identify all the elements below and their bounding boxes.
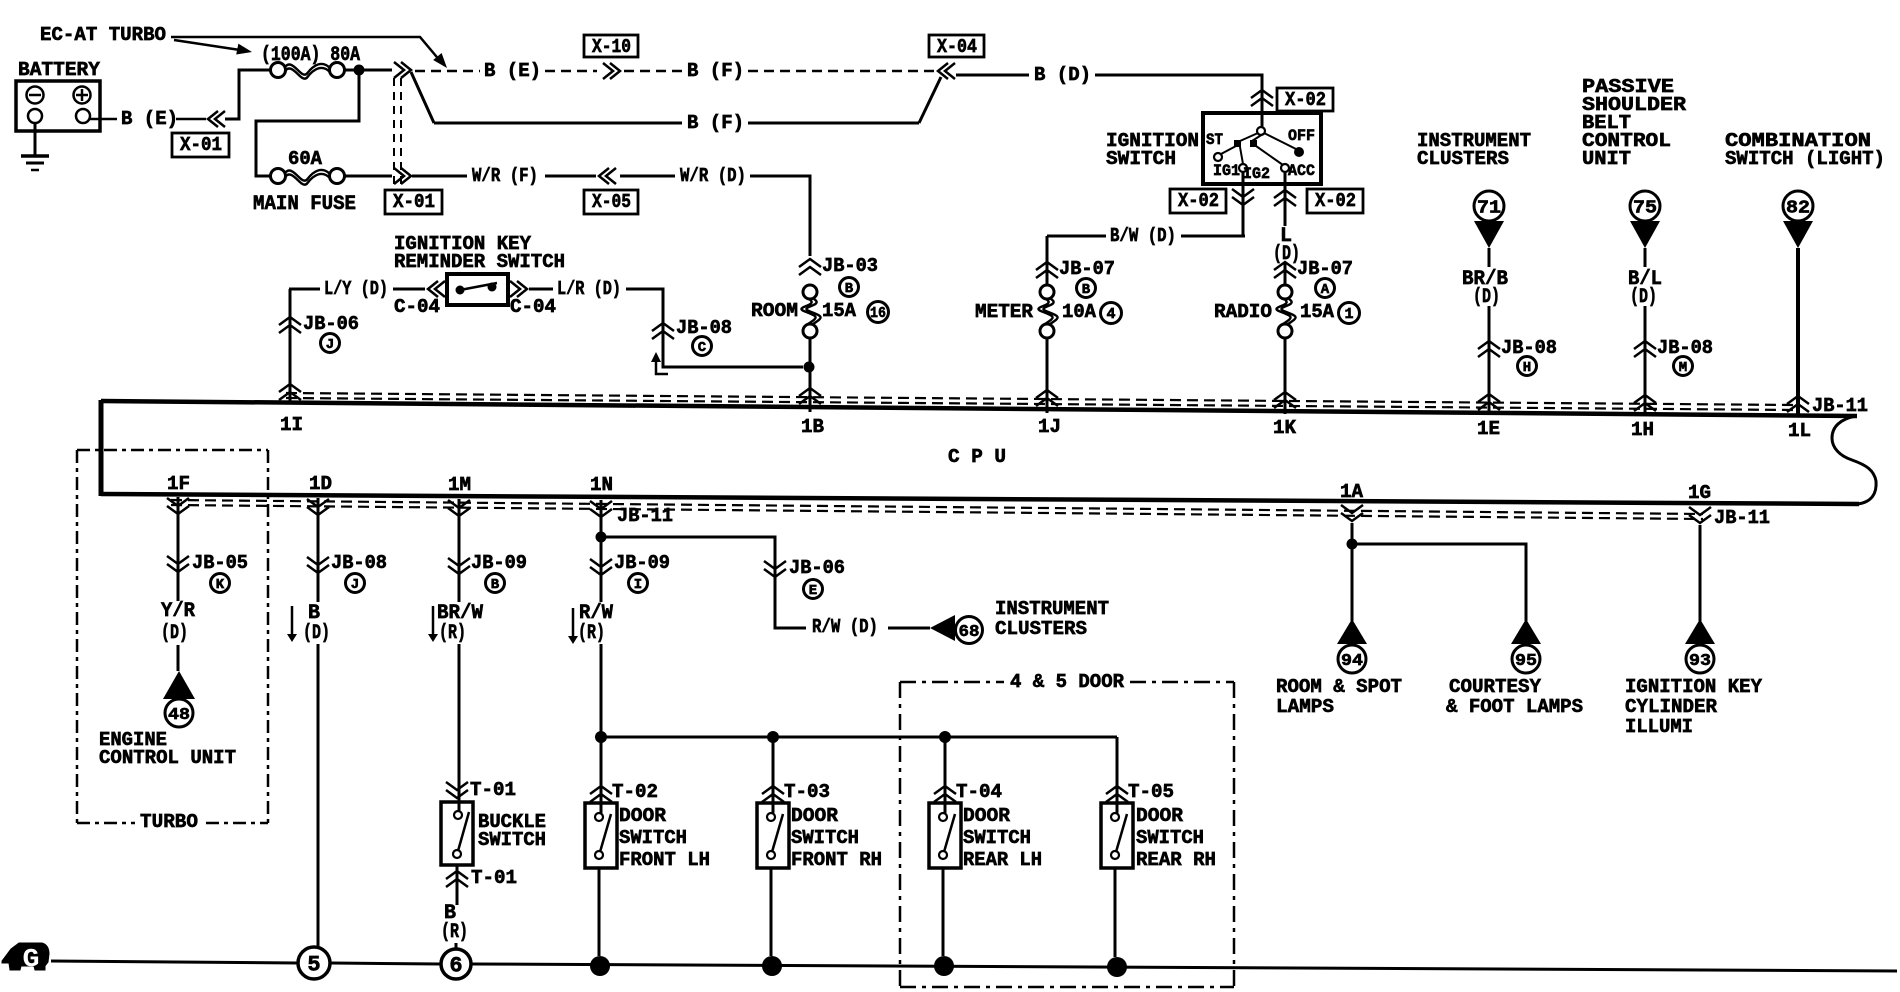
CPU bus right curl xyxy=(1832,416,1876,504)
svg-text:DOOR: DOOR xyxy=(791,805,839,827)
svg-text:JB-11: JB-11 xyxy=(1714,507,1770,529)
svg-text:A: A xyxy=(1321,282,1330,298)
svg-text:B/W (D): B/W (D) xyxy=(1110,225,1176,247)
connector ref circle 4 xyxy=(1101,303,1122,324)
wire branch to instrument clusters xyxy=(601,537,806,628)
svg-text:68: 68 xyxy=(959,623,980,642)
svg-text:ROOM & SPOT: ROOM & SPOT xyxy=(1276,676,1402,698)
current arrow 1D xyxy=(291,606,294,638)
wire 1G drop xyxy=(1699,525,1702,621)
svg-text:T-04: T-04 xyxy=(956,781,1002,803)
svg-text:ST: ST xyxy=(1206,131,1223,149)
svg-text:X-01: X-01 xyxy=(393,191,435,213)
connector X-10 label box xyxy=(584,35,638,57)
svg-text:ILLUMI: ILLUMI xyxy=(1625,716,1693,738)
junction block JB-08 J lower xyxy=(307,565,329,573)
svg-text:TURBO: TURBO xyxy=(140,811,198,833)
svg-text:X-02: X-02 xyxy=(1285,89,1326,111)
connector chevron C-04 right xyxy=(517,281,527,297)
svg-text:B (D): B (D) xyxy=(1034,64,1091,86)
connector chevron T-01 upper xyxy=(446,790,468,798)
svg-text:B: B xyxy=(491,577,500,593)
ground junction T-03 xyxy=(762,956,782,976)
junction block JB-09 B xyxy=(448,566,470,574)
node junction T-03 xyxy=(767,731,779,743)
wire 1N drop R/W (R) xyxy=(600,500,603,602)
fuse 60A xyxy=(271,169,286,184)
svg-text:(R): (R) xyxy=(441,921,468,944)
connector X-04 label box xyxy=(929,35,984,57)
svg-text:1B: 1B xyxy=(801,416,824,438)
wire T-04 to ground xyxy=(942,868,945,956)
svg-text:X-05: X-05 xyxy=(592,191,631,213)
svg-text:1: 1 xyxy=(1344,306,1353,323)
svg-text:SWITCH: SWITCH xyxy=(791,827,859,849)
arrow from EC-AT TURBO to main fuse xyxy=(174,40,240,50)
connector ref circle 95 courtesy and foot lamps xyxy=(1511,619,1541,644)
door switch T-03 xyxy=(757,803,789,868)
svg-text:CLUSTERS: CLUSTERS xyxy=(1417,148,1509,170)
svg-text:L/Y (D): L/Y (D) xyxy=(324,278,388,300)
wire xyxy=(345,175,392,178)
svg-text:48: 48 xyxy=(168,706,190,725)
svg-text:INSTRUMENT: INSTRUMENT xyxy=(995,598,1109,620)
node junction T-04 xyxy=(939,731,951,743)
connector X-02 label box right xyxy=(1307,189,1363,213)
svg-text:DOOR: DOOR xyxy=(619,805,667,827)
wire branch to courtesy lamps xyxy=(1352,544,1526,621)
connector ref circle 93 ignition key cylinder illumi xyxy=(1685,619,1715,644)
connector X-05 label box xyxy=(584,190,638,214)
svg-text:SWITCH (LIGHT): SWITCH (LIGHT) xyxy=(1725,148,1885,170)
svg-text:T-01: T-01 xyxy=(470,779,516,801)
CPU bus lower solid wire xyxy=(101,494,1859,504)
wire B (F) dashed to X-04 xyxy=(624,70,683,73)
wire ACC drop L (D) xyxy=(1284,172,1287,226)
wire xyxy=(225,70,270,119)
connector chevron X-02 ACC xyxy=(1274,190,1296,198)
svg-text:ACC: ACC xyxy=(1288,162,1315,180)
CPU bus left link xyxy=(99,400,104,496)
svg-text:EC-AT TURBO: EC-AT TURBO xyxy=(40,24,166,46)
svg-text:W/R (F): W/R (F) xyxy=(472,165,538,187)
junction block JB-06 J xyxy=(279,317,301,325)
svg-text:G: G xyxy=(23,944,40,974)
junction block JB-07 radio xyxy=(1274,262,1296,270)
svg-text:SWITCH: SWITCH xyxy=(1136,827,1204,849)
svg-text:K: K xyxy=(216,577,225,593)
svg-text:IGNITION KEY: IGNITION KEY xyxy=(1625,676,1763,698)
wire B (D) from X-04 to ignition switch xyxy=(956,74,1029,77)
svg-text:1F: 1F xyxy=(167,473,190,495)
wire to 60A fuse xyxy=(256,73,359,176)
svg-text:1E: 1E xyxy=(1477,418,1500,440)
svg-text:J: J xyxy=(326,337,334,353)
svg-text:15A: 15A xyxy=(1300,301,1335,323)
connector ref circle 71 instrument clusters xyxy=(1474,191,1504,221)
svg-text:X-02: X-02 xyxy=(1178,190,1219,212)
svg-text:BATTERY: BATTERY xyxy=(18,59,101,81)
door switch T-02 xyxy=(585,803,617,868)
node junction after 80A fuse xyxy=(354,65,365,76)
connector ref circle 94 room and spot lamps xyxy=(1337,619,1367,644)
svg-text:CLUSTERS: CLUSTERS xyxy=(995,618,1087,640)
wire T-02 to ground xyxy=(598,868,601,956)
svg-text:1I: 1I xyxy=(280,414,303,436)
connector ref circle 1 xyxy=(1339,303,1360,324)
connector chevron C-04 left xyxy=(428,281,438,297)
svg-text:C: C xyxy=(698,340,707,356)
CPU bus upper dashed pair xyxy=(286,393,1795,405)
wire B/L (D) to node 1H xyxy=(1644,248,1647,267)
svg-text:L/R (D): L/R (D) xyxy=(557,278,621,300)
junction block JB-08 C xyxy=(652,323,674,331)
svg-text:B (F): B (F) xyxy=(687,60,744,82)
svg-text:4: 4 xyxy=(1106,306,1115,323)
junction block JB-08 M xyxy=(1634,341,1656,349)
svg-text:Y/R: Y/R xyxy=(161,600,195,623)
ground symbol G xyxy=(2,943,49,970)
svg-text:REAR RH: REAR RH xyxy=(1136,849,1216,871)
svg-text:JB-09: JB-09 xyxy=(614,552,670,574)
connector chevron T-01 lower xyxy=(446,871,468,879)
wire 1I drop xyxy=(289,289,292,401)
connector chevron X-05 xyxy=(599,168,609,184)
svg-text:4 & 5 DOOR: 4 & 5 DOOR xyxy=(1010,671,1125,693)
svg-text:OFF: OFF xyxy=(1288,127,1315,145)
svg-text:1L: 1L xyxy=(1788,420,1811,442)
wire B (E) battery to main fuse xyxy=(90,118,117,121)
wire 1A drop xyxy=(1351,523,1354,621)
ground connector circle 5 xyxy=(298,947,330,979)
current arrow 1M xyxy=(432,606,435,638)
wire meter fuse to CPU node 1J xyxy=(1046,338,1049,413)
node junction 1A branch xyxy=(1347,539,1358,550)
reminder switch body xyxy=(447,274,508,305)
svg-text:COURTESY: COURTESY xyxy=(1449,676,1542,698)
svg-text:B (E): B (E) xyxy=(121,108,178,130)
svg-text:(D): (D) xyxy=(161,622,188,645)
svg-text:JB-05: JB-05 xyxy=(192,552,248,574)
svg-text:(R): (R) xyxy=(578,622,605,645)
svg-text:JB-09: JB-09 xyxy=(471,552,527,574)
wire below buckle switch xyxy=(456,865,459,905)
svg-text:1M: 1M xyxy=(448,474,471,496)
svg-text:FRONT LH: FRONT LH xyxy=(619,849,710,871)
ground junction T-02 xyxy=(590,956,610,976)
svg-text:1H: 1H xyxy=(1631,419,1654,441)
svg-text:(D): (D) xyxy=(303,622,330,645)
svg-text:JB-07: JB-07 xyxy=(1297,258,1353,280)
wire BR/B (D) to node 1E xyxy=(1488,248,1491,267)
connector X-01 label box 2 xyxy=(385,190,442,214)
svg-text:X-04: X-04 xyxy=(937,36,977,58)
fuse RADIO 15A xyxy=(1278,285,1292,299)
svg-text:IG1: IG1 xyxy=(1213,162,1240,180)
wire xyxy=(345,69,392,72)
svg-text:METER: METER xyxy=(975,301,1034,323)
door switch T-04 xyxy=(929,803,961,868)
svg-text:1A: 1A xyxy=(1340,481,1364,503)
svg-text:93: 93 xyxy=(1689,652,1711,671)
connector ref circle 75 passive belt unit xyxy=(1630,191,1660,221)
svg-text:C-04: C-04 xyxy=(394,296,440,318)
4 & 5 door dash-dot box xyxy=(900,681,1004,684)
connector chevron X-01 output 2 xyxy=(401,168,411,184)
CPU bus lower dashed pair xyxy=(171,500,1703,514)
wire W/R (D) to room fuse xyxy=(620,175,675,178)
svg-text:DOOR: DOOR xyxy=(1136,805,1184,827)
wire L/R (D) xyxy=(529,288,553,291)
node junction room/reminder xyxy=(804,362,815,373)
current arrow 1N xyxy=(572,608,575,640)
svg-text:MAIN FUSE: MAIN FUSE xyxy=(253,193,356,216)
svg-text:1K: 1K xyxy=(1273,417,1297,439)
svg-text:B (F): B (F) xyxy=(687,112,744,134)
ground junction T-05 xyxy=(1107,957,1127,977)
svg-text:RADIO: RADIO xyxy=(1214,301,1272,323)
connector ref circle 48 engine control unit xyxy=(163,671,195,699)
svg-text:1G: 1G xyxy=(1688,482,1711,504)
svg-text:X-01: X-01 xyxy=(180,134,222,156)
svg-text:FRONT RH: FRONT RH xyxy=(791,849,882,871)
arrow symbol at reminder wire corner xyxy=(656,362,668,374)
svg-text:B (E): B (E) xyxy=(484,60,541,82)
connector X-02 label box left xyxy=(1170,189,1226,213)
svg-text:X-10: X-10 xyxy=(592,36,631,58)
ground junction T-04 xyxy=(934,956,954,976)
svg-text:(D): (D) xyxy=(1630,286,1657,309)
arrow from EC-AT TURBO to B(E) dashed wire xyxy=(171,37,441,62)
svg-text:(D): (D) xyxy=(1473,286,1500,309)
wire 1D drop B (D) to ground 5 xyxy=(317,498,320,602)
svg-text:LAMPS: LAMPS xyxy=(1276,696,1334,718)
svg-text:C-04: C-04 xyxy=(510,296,556,318)
door switch T-05 xyxy=(1101,803,1133,868)
svg-text:W/R (D): W/R (D) xyxy=(680,165,746,187)
svg-text:M: M xyxy=(1679,360,1687,376)
engine control unit TURBO dash-dot box xyxy=(77,449,268,452)
svg-text:H: H xyxy=(1523,360,1531,376)
junction block JB-07 meter xyxy=(1046,236,1049,285)
ground connector circle 6 xyxy=(441,949,471,979)
wire B (F) solid lower branch xyxy=(411,72,434,123)
svg-text:1D: 1D xyxy=(309,473,332,495)
svg-text:J: J xyxy=(351,577,359,593)
svg-text:REMINDER SWITCH: REMINDER SWITCH xyxy=(394,251,565,273)
svg-text:60A: 60A xyxy=(288,148,323,170)
wire W/R (F) xyxy=(412,175,467,178)
connector X-02 label box top xyxy=(1277,88,1333,111)
svg-text:15A: 15A xyxy=(822,300,857,322)
junction block JB-05 K xyxy=(167,564,189,572)
svg-text:1J: 1J xyxy=(1038,416,1061,438)
wire T-03 to ground xyxy=(770,868,773,956)
svg-text:T-02: T-02 xyxy=(612,781,658,803)
svg-text:C P U: C P U xyxy=(948,446,1006,468)
connector ref circle 82 combination switch xyxy=(1783,191,1813,221)
svg-text:CONTROL UNIT: CONTROL UNIT xyxy=(99,747,236,769)
svg-text:REAR LH: REAR LH xyxy=(963,849,1042,871)
svg-text:JB-03: JB-03 xyxy=(822,255,878,277)
connector X-01 label box xyxy=(172,133,229,157)
svg-text:UNIT: UNIT xyxy=(1582,148,1631,170)
svg-text:R/W (D): R/W (D) xyxy=(812,616,878,638)
svg-text:10A: 10A xyxy=(1062,301,1097,323)
svg-text:75: 75 xyxy=(1633,198,1657,218)
door switch bus wire xyxy=(601,736,1117,739)
wire radio fuse to CPU node 1K xyxy=(1284,338,1287,414)
connector boundary dashed lines X-01 xyxy=(393,78,395,186)
connector ref circle 68 instrument clusters xyxy=(930,615,955,641)
wire 1F drop Y/R (D) xyxy=(177,497,180,601)
fuse METER 10A xyxy=(1040,285,1054,299)
wire T-04 drop xyxy=(944,737,947,813)
junction block JB-06 E xyxy=(764,569,786,577)
svg-text:& FOOT LAMPS: & FOOT LAMPS xyxy=(1446,696,1583,718)
CPU bus upper solid wire xyxy=(101,401,1857,416)
svg-text:94: 94 xyxy=(1341,652,1363,671)
junction block JB-08 H xyxy=(1478,341,1500,349)
svg-text:JB-08: JB-08 xyxy=(331,552,387,574)
svg-text:16: 16 xyxy=(870,305,886,322)
wire to node 1L xyxy=(1796,248,1800,415)
svg-text:JB-06: JB-06 xyxy=(303,313,359,335)
svg-text:SWITCH: SWITCH xyxy=(619,827,687,849)
wire L/Y (D) xyxy=(289,288,320,291)
wire T-03 drop xyxy=(772,737,775,813)
svg-text:X-02: X-02 xyxy=(1315,190,1356,212)
svg-text:T-03: T-03 xyxy=(784,781,830,803)
svg-text:B: B xyxy=(845,281,854,297)
wire T-05 to ground xyxy=(1114,868,1117,957)
svg-text:JB-11: JB-11 xyxy=(617,505,673,527)
svg-text:ROOM: ROOM xyxy=(751,300,798,322)
svg-text:T-05: T-05 xyxy=(1128,781,1174,803)
ground (battery) xyxy=(34,123,37,156)
svg-text:I: I xyxy=(634,577,642,593)
wire IG1 to B/W (D) xyxy=(1242,172,1245,236)
node junction 1N branch xyxy=(596,532,607,543)
junction block JB-03 xyxy=(799,259,821,267)
svg-text:CYLINDER: CYLINDER xyxy=(1625,696,1718,718)
wire T-05 corner drop xyxy=(1116,737,1119,813)
connector chevron X-02 ignition feed xyxy=(1251,90,1273,98)
wire B (E) dashed to X-10 xyxy=(415,70,480,73)
connector chevron X-02 IG1 xyxy=(1232,197,1254,205)
svg-text:71: 71 xyxy=(1477,198,1501,218)
wire 1M drop BR/W (R) to buckle switch xyxy=(458,499,461,602)
svg-text:B: B xyxy=(1082,282,1091,298)
svg-text:6: 6 xyxy=(449,954,462,979)
svg-text:1N: 1N xyxy=(590,474,613,496)
svg-text:82: 82 xyxy=(1786,198,1810,218)
junction block JB-09 I xyxy=(590,567,612,575)
fuse main 80A xyxy=(271,63,286,78)
svg-text:5: 5 xyxy=(307,953,320,978)
svg-text:JB-07: JB-07 xyxy=(1059,258,1115,280)
connector chevron X-01 on B(E) xyxy=(208,111,218,127)
svg-text:SWITCH: SWITCH xyxy=(478,829,546,851)
connector chevron X-04 xyxy=(938,63,948,79)
connector chevron X-10 xyxy=(610,63,620,79)
wire B/W (D) xyxy=(1047,235,1106,238)
svg-text:SWITCH: SWITCH xyxy=(963,827,1031,849)
buckle switch T-01 xyxy=(458,802,461,812)
wire room fuse to CPU node 1B xyxy=(809,338,812,412)
wire T-02 drop xyxy=(600,737,603,813)
svg-text:JB-06: JB-06 xyxy=(789,557,845,579)
svg-text:95: 95 xyxy=(1515,652,1537,671)
ground bus wire xyxy=(51,961,297,963)
svg-text:DOOR: DOOR xyxy=(963,805,1011,827)
node junction T-02 xyxy=(595,731,607,743)
connector ref circle 16 xyxy=(868,302,889,323)
svg-text:E: E xyxy=(809,583,817,599)
fuse ROOM 15A xyxy=(803,285,817,299)
svg-text:(R): (R) xyxy=(439,622,466,645)
connector chevron X-01 output xyxy=(401,62,411,78)
svg-text:SWITCH: SWITCH xyxy=(1106,148,1176,170)
svg-text:T-01: T-01 xyxy=(471,867,517,889)
